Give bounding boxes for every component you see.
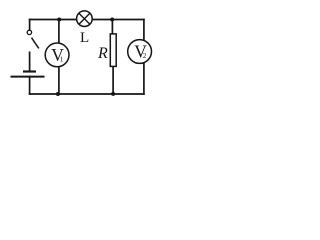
voltmeter V1 (45, 43, 69, 67)
junction dot node B (top R) (110, 18, 114, 22)
svg-text:L: L (80, 30, 89, 46)
svg-text:R: R (97, 45, 108, 62)
wire lamp to R junction (92, 19, 112, 21)
lamp L (77, 11, 93, 27)
junction dot node A (top V1) (57, 18, 61, 22)
wire V1 branch upper (58, 20, 60, 44)
wire bottom (30, 93, 144, 95)
resistor R (110, 34, 116, 67)
wire battery to bottom-left corner (29, 77, 31, 94)
wire V1 branch lower (58, 67, 60, 94)
wire switch lower terminal (29, 52, 31, 71)
wire R branch lower (112, 66, 114, 94)
battery cell: short plate (negative) (23, 70, 36, 72)
switch S (open) (27, 30, 39, 48)
wire top-left segment (30, 19, 77, 21)
wire right side upper (corner to V2) (143, 20, 145, 41)
svg-text:1: 1 (60, 56, 64, 64)
voltmeter V2 (128, 40, 152, 64)
battery cell: long plate (positive) (11, 76, 45, 78)
junction dot node C (bottom V1) (56, 92, 60, 96)
wire right side lower (V2 to corner) (143, 63, 145, 94)
svg-text:2: 2 (143, 52, 147, 60)
junction dot node D (bottom R) (111, 92, 115, 96)
wire R junction to top-right corner (112, 19, 144, 21)
wire left side top (corner to switch) (29, 20, 31, 31)
wire R branch upper (111, 20, 113, 34)
